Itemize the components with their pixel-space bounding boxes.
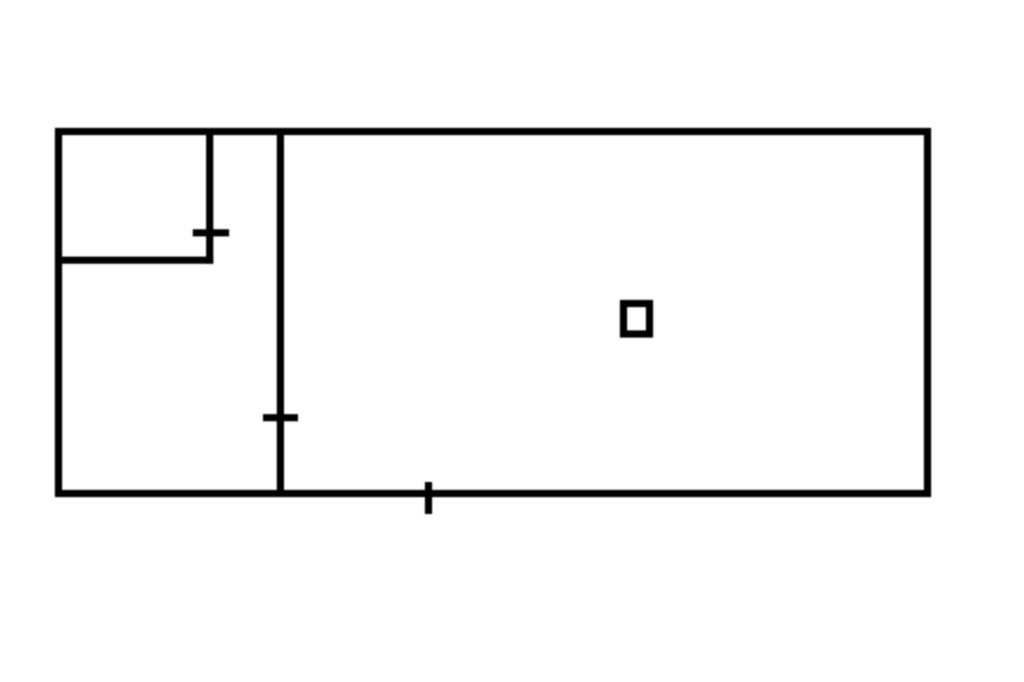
inner top-left room right wall <box>206 128 213 264</box>
outer rectangle (main outline) <box>59 132 928 494</box>
tick mark on inner room right wall <box>193 229 229 236</box>
tick mark on bottom edge <box>425 482 432 514</box>
tick mark on vertical divider <box>263 414 298 421</box>
inner top-left room bottom wall <box>55 257 213 264</box>
small square marker <box>624 304 650 335</box>
vertical divider wall <box>277 128 284 497</box>
